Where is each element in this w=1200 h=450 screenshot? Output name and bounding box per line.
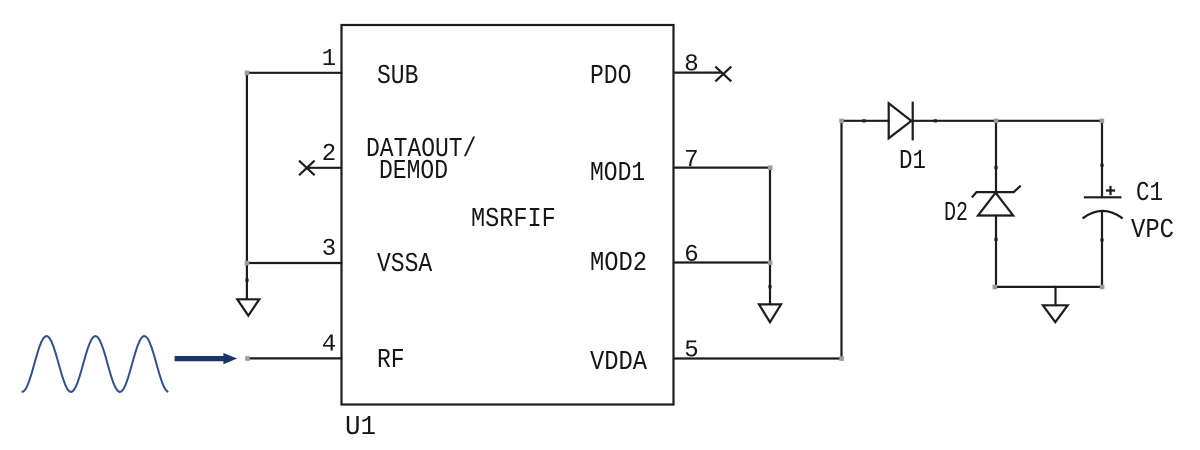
node square riser top corner — [839, 119, 844, 124]
zener D2 cathode bar — [973, 186, 1020, 196]
diode D1 triangle — [889, 103, 912, 138]
svg-text:DEMOD: DEMOD — [379, 157, 448, 187]
sine wave source — [22, 336, 169, 392]
svg-text:D1: D1 — [899, 147, 926, 177]
svg-text:MOD1: MOD1 — [590, 159, 645, 189]
node square pin5 corner — [839, 356, 844, 361]
node square pin3 corner — [245, 261, 250, 266]
svg-text:MSRFIF: MSRFIF — [471, 205, 556, 235]
junction dot D1 anode wire — [862, 119, 865, 122]
svg-text:2: 2 — [322, 141, 336, 168]
svg-text:VSSA: VSSA — [377, 250, 433, 280]
wire C1 branch upper — [1101, 121, 1103, 198]
node square bottom rail right — [1100, 285, 1105, 290]
zener D2 triangle — [978, 193, 1013, 216]
svg-text:D2: D2 — [944, 199, 968, 229]
junction dot D1 cathode wire — [934, 119, 937, 122]
wire pin5 VDDA — [674, 357, 842, 359]
wire D2 branch upper — [995, 121, 997, 192]
no-connect X pin2 — [300, 161, 314, 174]
input arrow — [175, 353, 238, 364]
node square D2 top junction — [994, 119, 999, 124]
svg-text:U1: U1 — [345, 413, 376, 443]
wire pin4 RF input — [247, 357, 341, 359]
junction dot D2 upper — [994, 166, 997, 169]
IC U1 box — [342, 25, 674, 405]
wire C1 branch lower — [1101, 211, 1103, 287]
svg-text:PDO: PDO — [590, 62, 631, 92]
ground GND3 — [1043, 305, 1068, 322]
svg-text:SUB: SUB — [377, 62, 418, 92]
svg-text:8: 8 — [684, 52, 698, 79]
node square RF input end — [245, 356, 250, 361]
wire ground stem left — [246, 263, 248, 299]
junction dot ground stem mod — [768, 285, 771, 288]
node square pin7 corner — [768, 165, 773, 170]
svg-text:C1: C1 — [1136, 179, 1163, 209]
junction dot ground stem left — [245, 279, 248, 282]
svg-text:6: 6 — [684, 242, 698, 269]
ground GND1 — [237, 299, 259, 315]
junction dot C1 lower — [1100, 238, 1103, 241]
wire vdda riser — [840, 121, 842, 359]
ground GND2 — [759, 304, 781, 322]
capacitor C1 curved plate — [1084, 211, 1122, 218]
node square bottom rail left — [993, 285, 998, 290]
svg-text:5: 5 — [684, 337, 698, 364]
junction dot C1 upper — [1100, 164, 1103, 167]
wire ground stem right — [1054, 287, 1056, 305]
svg-text:4: 4 — [322, 331, 336, 358]
wire pin8 stub — [674, 71, 722, 73]
wire pin1 to left rail — [247, 72, 342, 74]
svg-text:VDDA: VDDA — [590, 348, 648, 378]
svg-text:RF: RF — [377, 346, 405, 376]
diode D1 cathode bar — [912, 103, 914, 140]
svg-text:MOD2: MOD2 — [590, 249, 647, 279]
node square pin1 corner — [245, 71, 250, 76]
wire bottom rail — [995, 286, 1102, 288]
wire pin2 stub — [307, 167, 342, 169]
junction dot D2 lower — [994, 238, 997, 241]
svg-text:1: 1 — [322, 46, 336, 73]
capacitor C1 plus sign — [1107, 187, 1114, 194]
wire left rail vertical — [246, 73, 248, 263]
wire pin7 — [674, 167, 770, 169]
svg-text:7: 7 — [684, 147, 698, 174]
wire D1 to C1 branch — [913, 120, 1102, 122]
wire to diode D1 — [842, 120, 889, 122]
wire pin3 — [247, 262, 342, 264]
wire D2 branch lower — [995, 216, 997, 287]
node square C1 top corner — [1100, 119, 1105, 124]
wire ground stem mod — [769, 263, 771, 305]
wire mod vertical — [769, 168, 771, 263]
capacitor C1 top plate — [1085, 196, 1121, 198]
svg-text:3: 3 — [322, 236, 336, 263]
no-connect X pin8 — [716, 67, 730, 80]
wire pin6 — [674, 261, 770, 263]
node square pin6 junction — [768, 260, 773, 265]
svg-text:VPC: VPC — [1131, 216, 1174, 246]
